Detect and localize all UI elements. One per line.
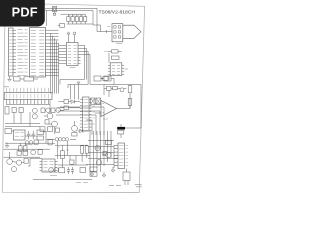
svg-text:TS08/V2-818CH: TS08/V2-818CH	[99, 9, 136, 15]
svg-text:PDF: PDF	[12, 4, 38, 19]
